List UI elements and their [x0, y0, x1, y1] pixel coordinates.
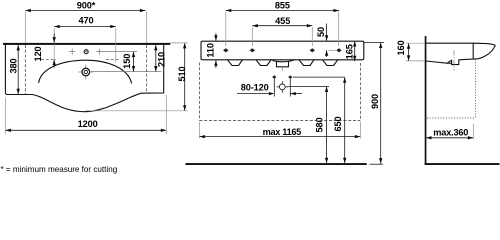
extension line right of 1200: [165, 95, 167, 134]
hidden inner ledge line left (dashed): [41, 58, 56, 60]
svg-text:150: 150: [122, 54, 132, 69]
dimension 120 (outside arrows): [53, 34, 55, 43]
extension line right of 455: [311, 27, 313, 46]
fixing hole diamond 4: [336, 48, 341, 52]
extension line left of max 1165: [198, 122, 200, 138]
extension line right of 900*: [146, 12, 148, 43]
svg-text:510: 510: [177, 66, 187, 81]
dashed cutting line right (900*): [146, 45, 148, 93]
extension line left of 1200: [4, 98, 6, 135]
extension line right of max 1165: [359, 122, 361, 138]
dimension max 1165 line with arrows: [199, 136, 360, 138]
dimension 855 line with arrows: [226, 10, 339, 12]
dimension 110 (outside arrows): [215, 33, 217, 41]
svg-text:855: 855: [275, 0, 290, 10]
dashed clearance outline bottom: [199, 120, 360, 122]
svg-text:580: 580: [315, 117, 325, 132]
dimension 380 line with arrows: [17, 45, 19, 94]
washbasin front view: body outline with curved underside: [5, 45, 163, 112]
side view: basin profile: [426, 43, 495, 64]
extension line top of 510: [171, 42, 189, 44]
mounting pocket 1 under bar: [228, 60, 243, 66]
svg-text:380: 380: [9, 58, 19, 73]
wall fixing diamond left (elevation): [272, 75, 276, 79]
extension line top of 160: [406, 42, 425, 44]
dashed cutting line left (900*): [24, 45, 26, 94]
dimension 160 line with arrows: [408, 43, 410, 61]
dashed clearance outline left: [198, 63, 200, 121]
faucet hole symbol (circle with cross ticks): [78, 65, 93, 80]
svg-text:80-120: 80-120: [241, 83, 269, 93]
extension line below right diamond: [289, 79, 291, 97]
reference line at faucet centre height to 150/210 dimensions: [91, 71, 162, 73]
overflow hole symbol (small circle): [83, 49, 89, 55]
mounting pocket 3 under bar: [299, 60, 314, 66]
extension line below left diamond: [273, 79, 275, 97]
dimension 150 line with arrows: [133, 52, 135, 72]
dimension 210 line with arrows: [155, 45, 157, 72]
svg-text:210: 210: [156, 52, 166, 67]
extension line left of 455: [251, 27, 253, 46]
fixing hole diamond 3: [310, 48, 315, 52]
svg-text:165: 165: [344, 44, 354, 59]
dimension 50 (outside arrows): [326, 24, 328, 41]
wall fixing diamond right (elevation): [288, 75, 292, 79]
reference line from tap hole row to 150 dimension: [102, 51, 138, 53]
wall line (thick): [425, 36, 427, 165]
extension line left of 855: [225, 12, 227, 47]
dimension 650 line with arrows: [344, 77, 346, 163]
svg-text:470: 470: [78, 15, 93, 25]
drain position symbol (circle with ticks): [277, 81, 288, 92]
mounting pocket 4 under bar: [322, 60, 337, 66]
extension line right of max.360: [472, 124, 474, 140]
floor line (thick): [425, 163, 500, 165]
dimension 1200 line with arrows: [5, 129, 166, 131]
fixing hole diamond 1: [223, 48, 228, 52]
extension line right of 470: [115, 28, 117, 63]
extension line bottom of 510: [86, 110, 188, 112]
svg-text:1200: 1200: [78, 119, 98, 129]
dimension 510 line with arrows: [184, 43, 186, 111]
svg-text:900: 900: [370, 94, 380, 109]
reference line rim height: [364, 42, 384, 44]
svg-text:110: 110: [205, 43, 215, 58]
svg-text:max.360: max.360: [433, 128, 468, 138]
floor reference tick under 900 dimension: [370, 163, 384, 165]
floor line under bottom view (thick): [185, 163, 366, 165]
reference line fixing height: [293, 76, 345, 78]
reference line drain height: [288, 86, 330, 88]
dotted clearance outline horizontal: [427, 117, 476, 119]
dimension max.360 line with arrows: [426, 137, 473, 139]
dimension 900* line with arrows: [25, 10, 145, 12]
extension line right of 855: [338, 12, 340, 47]
dimension 165 line with arrows: [354, 41, 356, 61]
dimension 455 line with arrows: [252, 25, 312, 27]
svg-text:650: 650: [333, 116, 343, 131]
drain recess under bar (centre): [272, 60, 295, 62]
extension line left of 470: [53, 28, 55, 63]
right tap hole cross: [96, 49, 102, 55]
svg-text:455: 455: [275, 16, 290, 26]
washbasin front view: inner bowl edge (open arc): [39, 60, 132, 83]
svg-text:120: 120: [33, 46, 43, 61]
drain centreline (dash-dot): [453, 51, 455, 71]
dotted clearance outline vertical: [475, 60, 477, 119]
svg-text:max 1165: max 1165: [263, 127, 302, 137]
washbasin front view: rim (top edge, thick): [3, 43, 170, 45]
dimension 580 line with arrows: [326, 87, 328, 164]
svg-text:* = minimum measure for cuttin: * = minimum measure for cutting: [1, 165, 118, 174]
dimension 470 line with arrows: [54, 26, 116, 28]
left tap hole cross: [69, 49, 75, 55]
svg-text:50: 50: [316, 27, 326, 37]
side view: siphon detail line: [447, 62, 452, 64]
extension line bottom of 160: [406, 60, 425, 62]
extension line left of 900*: [24, 12, 26, 43]
svg-text:160: 160: [396, 40, 406, 55]
fixing hole diamond 2: [250, 48, 255, 52]
dimension 80-120 (outside arrows): [237, 93, 269, 95]
svg-text:900*: 900*: [77, 0, 96, 10]
reference tick at fixing hole level for 50: [329, 49, 337, 51]
hidden inner ledge line right (dashed): [106, 58, 119, 60]
bottom view: basin body bar: [201, 41, 364, 60]
dimension 900 line with arrows: [380, 43, 382, 164]
dashed clearance outline right: [359, 63, 361, 121]
mounting pocket 2 under bar: [256, 60, 271, 66]
